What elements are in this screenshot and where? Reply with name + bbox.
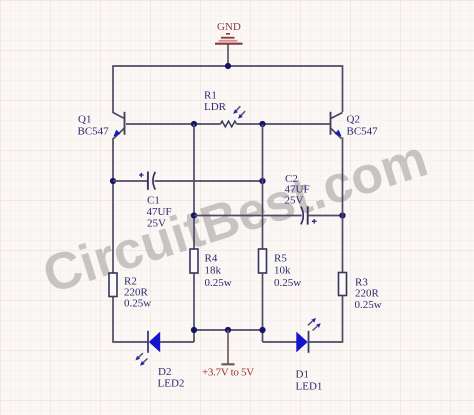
svg-text:0.25w: 0.25w — [274, 277, 301, 289]
Q2 emitter arrow — [335, 130, 342, 137]
node dot (342.5,215.5) — [339, 212, 345, 218]
svg-text:0.25w: 0.25w — [124, 298, 151, 310]
watermark — [37, 132, 433, 302]
wire left rail Q1 emitter down to R2 — [112, 138, 114, 273]
transistor Q1 — [113, 112, 125, 139]
wire C1 right — [155, 180, 263, 182]
svg-text:LED1: LED1 — [296, 381, 323, 393]
svg-text:R5: R5 — [274, 253, 287, 265]
resistor R3 — [339, 273, 347, 296]
svg-text:25V: 25V — [285, 195, 304, 207]
LDR light arrows — [236, 106, 245, 115]
wire right rail Q2 emitter down to R3 — [342, 138, 344, 273]
resistor R4 — [190, 249, 198, 273]
power port +3.7V to 5V — [222, 330, 235, 364]
svg-text:Q1: Q1 — [78, 114, 91, 126]
wire LDR to Q2 base — [237, 123, 330, 125]
wire C1 left — [113, 180, 148, 182]
svg-text:BC547: BC547 — [78, 126, 110, 138]
svg-text:D1: D1 — [296, 369, 309, 381]
wire R5 bottom to LED wire — [262, 273, 264, 342]
resistor R5 — [259, 249, 267, 273]
bottom supply rail — [194, 329, 263, 331]
svg-text:D2: D2 — [158, 366, 171, 378]
node dot (194,330) — [191, 327, 197, 333]
svg-text:C1: C1 — [147, 195, 160, 207]
svg-text:R4: R4 — [205, 253, 218, 265]
node dot (228,330) — [225, 327, 231, 333]
svg-text:LED2: LED2 — [158, 378, 185, 390]
svg-text:LDR: LDR — [204, 101, 227, 113]
node dot (194,215.5) — [191, 212, 197, 218]
wire R2 bottom to D2 — [113, 297, 148, 343]
capacitor C1 — [139, 172, 155, 190]
node dot A (194,124) — [191, 121, 197, 127]
D2 light arrows — [139, 353, 148, 362]
svg-text:R1: R1 — [204, 90, 217, 102]
svg-text:47UF: 47UF — [147, 206, 172, 218]
svg-text:220R: 220R — [355, 288, 380, 300]
node dot (262.5,181) — [259, 178, 265, 184]
resistor R1 LDR zigzag — [221, 121, 237, 127]
wire R4 bottom to LED wire — [193, 273, 195, 342]
wire R3 bottom to D1 — [309, 296, 343, 343]
svg-text:18k: 18k — [205, 265, 222, 277]
transistor Q2 — [331, 112, 343, 139]
wire D2 to node — [160, 341, 194, 343]
node dot (113,181) — [110, 178, 116, 184]
wire node A down to R4 — [193, 124, 195, 249]
wire top rail — [113, 66, 343, 113]
svg-text:0.25w: 0.25w — [205, 277, 232, 289]
wire node B bottom to D1 — [263, 341, 297, 343]
svg-text:25V: 25V — [147, 218, 166, 230]
svg-text:0.25w: 0.25w — [355, 299, 382, 311]
svg-text:+3.7V to 5V: +3.7V to 5V — [202, 367, 254, 379]
wire node B down to R5 — [262, 124, 264, 249]
svg-text:10k: 10k — [274, 265, 291, 277]
wire C2 left — [194, 215, 302, 217]
Q1 emitter arrow — [113, 130, 120, 137]
svg-text:BC547: BC547 — [347, 126, 379, 138]
resistor R2 — [109, 273, 117, 297]
svg-text:GND: GND — [217, 21, 241, 33]
ground symbol — [215, 34, 243, 66]
D1 light arrows — [308, 321, 317, 330]
svg-text:Q2: Q2 — [347, 114, 360, 126]
capacitor C2 — [301, 206, 317, 224]
LED D1 — [296, 331, 308, 353]
node dot (262.5,330) — [259, 327, 265, 333]
node dot GND on top rail — [225, 63, 231, 69]
LED D2 — [148, 331, 160, 353]
wire C2 right — [308, 215, 343, 217]
node dot B (262.5,124) — [259, 121, 265, 127]
wire Q1 base to LDR — [126, 123, 221, 125]
